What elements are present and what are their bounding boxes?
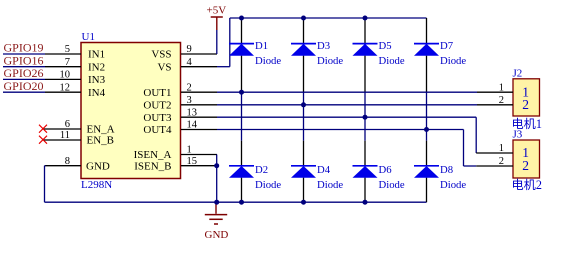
- svg-text:OUT4: OUT4: [143, 124, 172, 136]
- svg-text:D8: D8: [440, 164, 453, 176]
- diode D1: [229, 40, 281, 67]
- wire +5V to pin 9 VSS: [216, 30, 218, 54]
- diode D7: [414, 40, 466, 67]
- junction top rail D1: [239, 16, 244, 21]
- J2 designator: [513, 68, 523, 80]
- junction ground rail col 1: [239, 200, 244, 205]
- pin 10 IN3: [45, 70, 106, 87]
- svg-text:D2: D2: [255, 164, 268, 176]
- svg-text:5: 5: [65, 44, 70, 55]
- wire GPIO16 to pin 7: [3, 66, 45, 68]
- wire GPIO26 to pin 10: [3, 78, 45, 80]
- J3 designator: [513, 129, 523, 141]
- IC U1 L298N body: [81, 43, 181, 179]
- wire OUT3 to J3 pin 1: [217, 117, 476, 153]
- wire GPIO19 to pin 5: [3, 53, 45, 55]
- svg-text:IN1: IN1: [88, 49, 105, 61]
- svg-text:2: 2: [499, 156, 504, 167]
- J3 pin 1: [476, 143, 529, 160]
- wire OUT2 to J2 pin 2: [217, 104, 477, 106]
- connector J3 body: [513, 140, 540, 178]
- wire ISEN_B down to ground rail: [216, 166, 218, 203]
- J2 value motor1: [512, 117, 542, 131]
- svg-text:OUT2: OUT2: [143, 100, 171, 112]
- wire pin 4 VS to +5V rail riser: [217, 18, 230, 67]
- pin 8 GND: [45, 156, 110, 173]
- wire column D3/D4 vertical: [303, 18, 305, 202]
- pin 2 OUT1: [143, 82, 217, 99]
- svg-text:4: 4: [187, 57, 193, 68]
- svg-text:L298N: L298N: [81, 179, 112, 191]
- J2 pin 2: [477, 95, 529, 112]
- svg-text:D7: D7: [440, 40, 454, 52]
- junction top rail D5: [363, 16, 368, 21]
- net label GPIO20: [4, 79, 44, 93]
- svg-text:Diode: Diode: [255, 55, 281, 67]
- wire ISEN_A down to ISEN_B: [216, 155, 218, 166]
- svg-text:2: 2: [522, 97, 529, 112]
- J3 pin 2: [476, 156, 529, 173]
- wire GPIO20 to pin 12: [3, 91, 45, 93]
- junction OUT3: [363, 115, 368, 120]
- pin 14 OUT4: [143, 120, 217, 137]
- svg-text:Diode: Diode: [440, 55, 466, 67]
- svg-text:Diode: Diode: [379, 179, 405, 191]
- svg-text:GND: GND: [86, 160, 110, 172]
- svg-text:2: 2: [522, 158, 529, 173]
- J3 value motor2: [512, 178, 542, 192]
- svg-text:1: 1: [499, 143, 504, 154]
- svg-text:Diode: Diode: [255, 179, 281, 191]
- no-connect X on EN_A: [39, 125, 47, 133]
- diode D6: [353, 164, 405, 191]
- junction ground rail col 3: [363, 200, 368, 205]
- svg-text:8: 8: [65, 156, 70, 167]
- pin 1 ISEN_A: [134, 145, 217, 162]
- svg-text:10: 10: [60, 70, 71, 81]
- svg-text:+5V: +5V: [207, 5, 227, 17]
- wire OUT1 to J2 pin 1: [217, 91, 477, 93]
- net label GPIO26: [4, 66, 44, 80]
- svg-text:6: 6: [65, 119, 70, 130]
- no-connect X on EN_B: [39, 136, 47, 144]
- junction OUT4: [424, 127, 429, 132]
- svg-text:OUT3: OUT3: [143, 112, 172, 124]
- wire ground bottom rail: [45, 201, 427, 203]
- svg-text:13: 13: [187, 107, 198, 118]
- pin 11 EN_B: [44, 130, 115, 147]
- svg-text:Diode: Diode: [440, 179, 466, 191]
- svg-text:D5: D5: [379, 40, 392, 52]
- junction OUT1: [239, 90, 244, 95]
- ground GND symbol: [205, 202, 229, 241]
- svg-text:9: 9: [187, 44, 192, 55]
- svg-text:Diode: Diode: [379, 55, 405, 67]
- svg-text:D1: D1: [255, 40, 268, 52]
- power +5V symbol: [207, 5, 227, 31]
- svg-text:OUT1: OUT1: [143, 87, 171, 99]
- diode D3: [291, 40, 343, 67]
- pin 4 VS: [157, 57, 217, 74]
- svg-text:2: 2: [187, 82, 192, 93]
- J2 pin 1: [477, 82, 529, 99]
- wire GND pin8 down to ground rail: [45, 166, 46, 203]
- net label GPIO16: [4, 53, 44, 67]
- svg-text:1: 1: [187, 145, 192, 156]
- pin 15 ISEN_B: [134, 156, 217, 173]
- svg-text:D6: D6: [379, 164, 393, 176]
- diode D2: [229, 164, 281, 191]
- pin 13 OUT3: [143, 107, 217, 124]
- svg-text:IN3: IN3: [88, 74, 106, 86]
- svg-text:GND: GND: [205, 229, 229, 241]
- U1 designator: [82, 31, 95, 43]
- junction top rail D3: [301, 16, 306, 21]
- wire column D7/D8 vertical: [426, 18, 428, 202]
- pin 9 VSS: [151, 44, 217, 61]
- svg-text:7: 7: [65, 57, 70, 68]
- svg-text:ISEN_A: ISEN_A: [134, 149, 172, 161]
- diode D5: [353, 40, 405, 67]
- svg-text:EN_B: EN_B: [87, 135, 115, 147]
- svg-text:14: 14: [187, 120, 198, 131]
- svg-text:Diode: Diode: [317, 179, 343, 191]
- pin 6 EN_A: [44, 119, 115, 136]
- svg-text:VSS: VSS: [151, 49, 171, 61]
- wire column D1/D2 vertical: [241, 18, 243, 202]
- svg-text:ISEN_B: ISEN_B: [134, 160, 171, 172]
- svg-text:J2: J2: [513, 68, 523, 80]
- svg-text:3: 3: [187, 95, 192, 106]
- svg-text:IN2: IN2: [88, 61, 105, 73]
- svg-text:VS: VS: [157, 61, 171, 73]
- diode D4: [291, 164, 343, 191]
- connector J2 body: [513, 79, 540, 116]
- svg-text:Diode: Diode: [317, 55, 343, 67]
- svg-text:12: 12: [60, 82, 71, 93]
- diode D8: [414, 164, 466, 191]
- net label GPIO19: [4, 41, 44, 55]
- svg-text:2: 2: [499, 95, 504, 106]
- junction OUT2: [301, 102, 306, 107]
- svg-text:GPIO20: GPIO20: [4, 79, 44, 93]
- junction ISEN: [214, 163, 219, 168]
- svg-text:D3: D3: [317, 40, 330, 52]
- svg-text:D4: D4: [317, 164, 331, 176]
- U1 value L298N: [81, 179, 112, 191]
- wire column D5/D6 vertical: [364, 18, 366, 202]
- svg-text:电机2: 电机2: [512, 178, 542, 192]
- svg-text:15: 15: [187, 156, 198, 167]
- svg-text:11: 11: [60, 130, 70, 141]
- wire +5V top rail: [230, 17, 427, 19]
- svg-text:1: 1: [499, 82, 504, 93]
- svg-text:J3: J3: [513, 129, 523, 141]
- wire OUT4 to J3 pin 2: [217, 130, 476, 167]
- svg-text:IN4: IN4: [88, 87, 106, 99]
- pin 12 IN4: [45, 82, 106, 99]
- junction ground rail GND stem: [214, 200, 219, 205]
- junction ground rail col 2: [301, 200, 306, 205]
- pin 7 IN2: [45, 57, 105, 74]
- pin 5 IN1: [45, 44, 105, 61]
- pin 3 OUT2: [143, 95, 217, 112]
- svg-text:U1: U1: [82, 31, 95, 43]
